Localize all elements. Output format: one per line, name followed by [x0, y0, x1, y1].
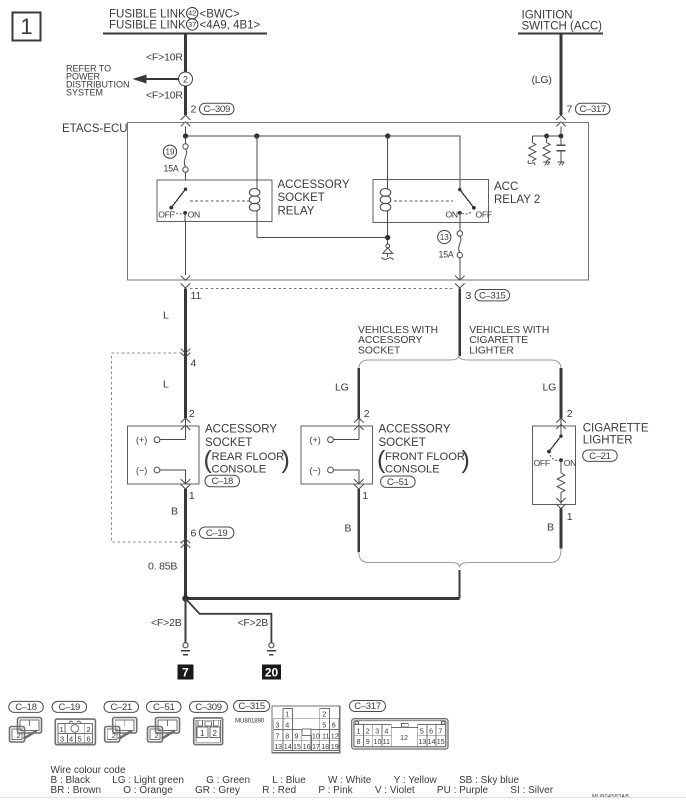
svg-text:C–19: C–19 — [206, 528, 228, 539]
page number box 1 — [13, 13, 41, 41]
cigarette lighter switch — [534, 418, 577, 468]
svg-text:11: 11 — [322, 731, 329, 740]
svg-text:2: 2 — [364, 408, 370, 420]
connector C-19 oval (bottom row) — [52, 701, 87, 713]
svg-text:(−): (−) — [136, 466, 147, 476]
wire B lighter — [560, 509, 563, 549]
svg-text:MU801890: MU801890 — [235, 718, 265, 725]
wire LG lighter branch — [560, 368, 563, 418]
svg-text:2: 2 — [87, 725, 91, 734]
svg-text:FUSIBLE LINK: FUSIBLE LINK — [109, 9, 186, 21]
svg-text:7: 7 — [567, 104, 573, 116]
junction dot C — [385, 133, 390, 138]
connector C-317 oval (bottom row) — [350, 701, 386, 713]
svg-text:16: 16 — [303, 742, 311, 751]
wire to ground 20 — [186, 599, 272, 643]
svg-text:<F>2B: <F>2B — [238, 617, 269, 629]
svg-text:CONSOLE: CONSOLE — [212, 463, 267, 475]
svg-text:2: 2 — [17, 731, 21, 740]
ground number box 20 — [262, 664, 281, 679]
svg-text:<F>10R: <F>10R — [146, 52, 183, 64]
svg-text:LIGHTER: LIGHTER — [583, 435, 633, 447]
svg-text:4: 4 — [191, 358, 197, 370]
svg-text:12: 12 — [400, 733, 408, 742]
bus wire horizontal — [186, 136, 460, 190]
svg-text:3: 3 — [60, 735, 64, 744]
filter resistor R2 — [543, 136, 550, 165]
svg-text:4: 4 — [384, 727, 388, 736]
connector C-315 dashed tie line — [190, 288, 455, 290]
svg-text:42: 42 — [188, 9, 196, 18]
wire L upper segment — [184, 289, 187, 419]
svg-text:ACCRELAY 2: ACCRELAY 2 — [494, 181, 540, 206]
fuse 13 number circle — [438, 230, 451, 243]
ignition switch header — [518, 10, 603, 34]
svg-text:C–315: C–315 — [238, 701, 265, 712]
svg-text:C–51: C–51 — [153, 702, 175, 713]
fuse 19 number circle — [163, 145, 176, 158]
svg-text:7: 7 — [438, 727, 442, 736]
body ground symbol 7 — [181, 643, 190, 655]
RC filter network — [532, 127, 563, 139]
connector C-309 pin 2 — [191, 103, 235, 115]
svg-text:LG: LG — [543, 382, 557, 394]
svg-text:C–51: C–51 — [387, 477, 409, 488]
svg-text:1: 1 — [20, 14, 32, 39]
svg-text:C–18: C–18 — [211, 476, 233, 487]
svg-text:9: 9 — [366, 737, 370, 746]
rear socket plus terminal — [136, 418, 186, 445]
svg-text:2: 2 — [191, 104, 197, 116]
rear socket minus terminal — [136, 466, 186, 484]
svg-text:4: 4 — [285, 721, 289, 730]
accessory socket rear box — [128, 426, 199, 484]
svg-text:5: 5 — [420, 727, 424, 736]
ground number box 7 — [177, 664, 193, 679]
node 2 junction circle — [179, 72, 193, 86]
svg-text:C–315: C–315 — [479, 290, 506, 301]
svg-text:(−): (−) — [310, 466, 321, 476]
svg-text:REAR FLOOR: REAR FLOOR — [212, 451, 285, 463]
svg-text:2: 2 — [567, 408, 573, 420]
connector C-317 pin 7 — [567, 103, 611, 115]
svg-text:1: 1 — [362, 490, 368, 502]
svg-text:20: 20 — [265, 666, 279, 680]
svg-text:(+): (+) — [310, 435, 321, 445]
connector C-19 face view — [55, 719, 95, 745]
connector C-18 face view — [10, 718, 42, 743]
svg-text:1: 1 — [200, 729, 205, 738]
svg-text:BR : Brown O : Orange: BR : Brown O : Orange GR : Grey R : Red … — [51, 785, 554, 796]
svg-text:15A: 15A — [164, 163, 179, 173]
svg-text:7: 7 — [275, 731, 279, 740]
svg-text:ACCESSORY: ACCESSORY — [379, 424, 451, 436]
svg-text:14: 14 — [428, 737, 436, 746]
pin 6 and C-19 label — [191, 527, 234, 540]
svg-text:ACCESSORYSOCKETRELAY: ACCESSORYSOCKETRELAY — [278, 179, 350, 217]
connector C-309 face view — [194, 718, 223, 745]
ECU exit left chevrons — [181, 276, 191, 281]
lighter heating element resistor — [557, 460, 565, 504]
svg-text:1: 1 — [189, 490, 195, 502]
svg-text:11: 11 — [383, 737, 390, 746]
fuse 13 — [457, 222, 462, 280]
svg-text:0. 85B: 0. 85B — [148, 561, 177, 573]
svg-text:1: 1 — [567, 511, 573, 523]
wire LG front socket branch — [357, 368, 360, 418]
svg-text:5: 5 — [78, 735, 82, 744]
svg-text:(LG): (LG) — [532, 74, 552, 86]
svg-text:FUSIBLE LINK: FUSIBLE LINK — [109, 20, 186, 32]
filter capacitor — [556, 136, 565, 165]
svg-text:C–309: C–309 — [195, 702, 222, 713]
svg-text:19: 19 — [166, 148, 175, 157]
wire: ignition ACC feed — [560, 34, 563, 116]
svg-text:C–18: C–18 — [15, 702, 37, 713]
svg-text:L: L — [163, 379, 169, 391]
svg-text:ON: ON — [188, 209, 200, 219]
svg-text:C–19: C–19 — [59, 702, 81, 713]
filter resistor R1 — [528, 136, 536, 165]
svg-text:<BWC>: <BWC> — [200, 9, 241, 21]
svg-text:LG: LG — [335, 382, 349, 394]
front socket label — [377, 424, 470, 476]
svg-text:CIGARETTE: CIGARETTE — [583, 423, 649, 435]
cigarette lighter box — [533, 426, 576, 505]
svg-text:8: 8 — [357, 737, 361, 746]
arrow to power distribution system — [133, 75, 179, 84]
svg-text:2: 2 — [112, 731, 116, 740]
junction dot ground — [182, 595, 188, 601]
connector C-315 face view — [272, 706, 340, 753]
svg-text:14: 14 — [284, 742, 292, 751]
connector C-315 oval (bottom row) — [234, 701, 270, 725]
rear socket label — [204, 424, 290, 476]
fusible link 42 label — [109, 8, 240, 21]
ETACS-ECU box — [128, 122, 589, 280]
svg-text:C–21: C–21 — [589, 451, 611, 462]
svg-text:13: 13 — [440, 233, 449, 242]
connector C-21 oval (bottom row) — [104, 701, 139, 713]
svg-text:4: 4 — [69, 735, 73, 744]
svg-text:OFF: OFF — [534, 458, 550, 468]
svg-text:2: 2 — [155, 731, 159, 740]
svg-text:CONSOLE: CONSOLE — [385, 463, 440, 475]
svg-text:L: L — [163, 310, 169, 322]
svg-text:VEHICLES WITHCIGARETTELIGHTER: VEHICLES WITHCIGARETTELIGHTER — [469, 325, 549, 356]
svg-text:): ) — [462, 446, 470, 474]
svg-text:37: 37 — [188, 20, 196, 29]
connector C-18 oval (bottom row) — [9, 701, 44, 713]
connector C-18 oval label — [205, 475, 240, 487]
svg-text:C–317: C–317 — [354, 701, 381, 712]
svg-text:<F>2B: <F>2B — [151, 617, 182, 629]
accessory socket relay dashed link — [190, 200, 251, 202]
front socket exit chevrons — [354, 479, 364, 484]
junction dot B — [254, 133, 259, 138]
ground merge wire horizontal — [186, 597, 460, 600]
lighter exit chevrons — [556, 498, 566, 503]
connector C-317 face view — [352, 719, 448, 749]
svg-text:13: 13 — [418, 737, 426, 746]
svg-text:8: 8 — [285, 731, 289, 740]
svg-text:7: 7 — [182, 666, 189, 680]
svg-text:13: 13 — [274, 742, 282, 751]
svg-text:3: 3 — [375, 727, 379, 736]
wire B front socket — [357, 489, 360, 552]
acc relay 2 box — [373, 180, 489, 223]
wire to ground 7 — [185, 599, 187, 643]
svg-text:ACCESSORY: ACCESSORY — [205, 424, 277, 436]
accessory socket relay coil — [249, 136, 260, 238]
connector C-51 oval label — [381, 476, 416, 488]
svg-text:2: 2 — [322, 710, 326, 719]
accessory socket relay switch — [158, 188, 200, 222]
svg-text:OFF: OFF — [476, 209, 492, 219]
svg-text:10: 10 — [374, 737, 382, 746]
svg-text:2: 2 — [213, 729, 218, 738]
acc relay 2 coil — [380, 136, 391, 238]
footer faint rule — [0, 797, 686, 799]
svg-text:B: B — [345, 523, 352, 535]
svg-text:ON: ON — [564, 458, 576, 468]
svg-text:SOCKET: SOCKET — [205, 437, 252, 449]
coil ground junction wire — [257, 238, 388, 245]
rear socket exit chevrons — [181, 479, 191, 484]
front socket entry chevrons — [354, 418, 364, 423]
body ground symbol 20 — [267, 643, 276, 655]
wire B rear socket — [184, 489, 187, 599]
acc relay 2 switch — [446, 188, 492, 222]
svg-text:2: 2 — [183, 75, 188, 85]
fuse 19 — [183, 136, 188, 180]
merge brace bottom — [359, 549, 561, 568]
svg-text:(+): (+) — [136, 435, 147, 445]
svg-text:OFF: OFF — [158, 209, 174, 219]
svg-text:SWITCH (ACC): SWITCH (ACC) — [522, 21, 603, 33]
svg-text:VEHICLES WITHACCESSORYSOCKET: VEHICLES WITHACCESSORYSOCKET — [358, 325, 438, 356]
svg-text:C–317: C–317 — [579, 104, 606, 115]
connector C-317 chevrons — [556, 115, 566, 120]
svg-text:19: 19 — [331, 742, 339, 751]
acc relay 2 dashed link — [394, 200, 453, 202]
ECU exit right chevrons — [455, 276, 465, 281]
fusible link header underline — [103, 33, 267, 35]
svg-text:3: 3 — [466, 290, 472, 302]
svg-text:B: B — [171, 506, 178, 518]
svg-text:6: 6 — [429, 727, 433, 736]
svg-text:9: 9 — [295, 731, 299, 740]
lighter entry chevrons — [556, 418, 566, 423]
svg-text:FRONT FLOOR: FRONT FLOOR — [385, 451, 465, 463]
front socket minus terminal — [310, 466, 359, 484]
connector C-51 oval (bottom row) — [147, 701, 182, 713]
svg-text:1: 1 — [357, 727, 361, 736]
accessory socket front box — [301, 426, 373, 484]
svg-text:ETACS-ECU: ETACS-ECU — [62, 123, 128, 135]
svg-text:17: 17 — [312, 742, 320, 751]
svg-text:REFER TOPOWERDISTRIBUTIONSYSTE: REFER TOPOWERDISTRIBUTIONSYSTEM — [66, 64, 130, 98]
split brace — [359, 356, 561, 370]
svg-text:11: 11 — [191, 290, 202, 302]
svg-text:6: 6 — [191, 528, 197, 540]
connector C-51 face view — [148, 718, 180, 743]
accessory socket relay box — [157, 180, 272, 221]
svg-text:5: 5 — [322, 721, 326, 730]
connector C-309 oval (bottom row) — [190, 701, 228, 713]
ECU internal ground symbol — [382, 244, 394, 260]
svg-text:2: 2 — [189, 408, 195, 420]
svg-text:SOCKET: SOCKET — [379, 437, 426, 449]
svg-text:6: 6 — [87, 735, 91, 744]
svg-text:<4A9, 4B1>: <4A9, 4B1> — [200, 20, 261, 32]
dashed bypass to C-19 — [111, 353, 181, 542]
svg-text:B: B — [547, 522, 554, 534]
joint connector 4 chevrons — [181, 349, 191, 354]
junction dot coil ground — [385, 235, 390, 240]
svg-text:3: 3 — [275, 721, 279, 730]
svg-text:15A: 15A — [439, 249, 454, 259]
joint connector 6 chevrons — [181, 539, 191, 544]
svg-text:18: 18 — [321, 742, 329, 751]
connector C-21 face view — [105, 718, 137, 743]
bus wire inside ECU from C-309 — [185, 127, 187, 137]
wire from C-315 pin 3 down — [458, 289, 461, 357]
svg-text:15: 15 — [437, 737, 445, 746]
junction dot A — [183, 133, 188, 138]
front socket plus terminal — [310, 418, 359, 445]
svg-text:2: 2 — [366, 727, 370, 736]
connector C-309 chevrons — [181, 115, 191, 120]
svg-text:12: 12 — [331, 731, 339, 740]
fusible link 37 label — [109, 19, 261, 32]
wire: fusible link feed down — [184, 34, 187, 116]
svg-text:ON: ON — [446, 209, 458, 219]
svg-text:15: 15 — [293, 742, 301, 751]
svg-text:): ) — [282, 446, 290, 474]
svg-text:<F>10R: <F>10R — [146, 90, 183, 102]
rear socket entry chevrons — [181, 418, 191, 423]
svg-text:C–309: C–309 — [203, 104, 230, 115]
svg-text:1: 1 — [285, 710, 289, 719]
svg-text:10: 10 — [312, 731, 320, 740]
svg-text:6: 6 — [332, 721, 336, 730]
svg-text:1: 1 — [60, 725, 64, 734]
pin 3 and C-315 label — [466, 290, 510, 303]
ECU exit left wire stub — [185, 221, 187, 275]
cigarette lighter label — [583, 423, 649, 462]
svg-text:C–21: C–21 — [110, 702, 132, 713]
